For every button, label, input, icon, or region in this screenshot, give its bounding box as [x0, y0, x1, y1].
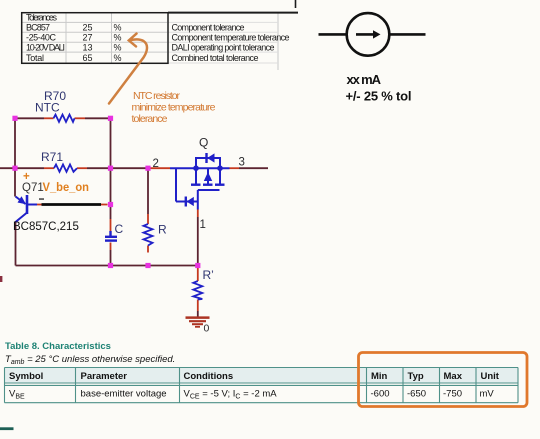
svg-text:Max: Max [444, 371, 463, 382]
drain stub [219, 168, 221, 185]
svg-text:Symbol: Symbol [9, 371, 43, 382]
gate bar [198, 189, 220, 191]
wire: right vertical (R70 loop) [110, 118, 112, 168]
mosfet junction dots [193, 165, 199, 171]
svg-text:xx mA: xx mA [347, 72, 382, 87]
gate protection branch vertical [175, 168, 177, 201]
svg-text:Conditions: Conditions [184, 371, 234, 382]
collector [16, 213, 27, 222]
current source I1 [319, 13, 426, 56]
svg-text:-600: -600 [371, 389, 390, 400]
svg-text:mV: mV [480, 389, 495, 400]
tolerance table black border [22, 13, 298, 64]
svg-text:BC857: BC857 [26, 23, 50, 33]
svg-text:+/- 25 % tol: +/- 25 % tol [346, 89, 412, 104]
channel segment right [215, 183, 225, 185]
wire lead left [319, 33, 347, 36]
svg-text:-750: -750 [443, 389, 462, 400]
svg-text:Min: Min [371, 371, 388, 382]
svg-text:DALI operating point tolerance: DALI operating point tolerance [172, 42, 275, 52]
resistor R70 zigzag [54, 115, 75, 122]
footer bar fragment [0, 427, 14, 430]
wire: bottom rail [16, 265, 199, 267]
svg-text:tolerance: tolerance [132, 113, 168, 125]
svg-text:NTC: NTC [35, 101, 60, 115]
svg-text:Table 8. Characteristics: Table 8. Characteristics [5, 341, 111, 352]
svg-text:13: 13 [82, 42, 92, 52]
wire: C column upper [110, 168, 112, 219]
svg-text:Total: Total [26, 53, 44, 63]
Table 8 header background [5, 368, 519, 384]
channel segment left [191, 183, 201, 185]
wire: R70 loop top [0, 118, 268, 317]
resistor R71 zigzag [54, 165, 77, 172]
tolerance table text [26, 13, 290, 63]
svg-text:0: 0 [204, 323, 210, 335]
svg-text:3: 3 [239, 157, 245, 169]
svg-text:Tolerances: Tolerances [26, 13, 58, 23]
svg-text:25: 25 [82, 23, 92, 33]
orange highlight box [359, 353, 528, 407]
zener wire [176, 201, 198, 203]
Table 8 body row [9, 389, 494, 401]
wire: C column lower [110, 250, 112, 266]
pin1 vertical (blue part) [197, 202, 199, 210]
MOSFET Q [170, 153, 230, 210]
svg-text:BC857C,215: BC857C,215 [13, 221, 79, 233]
svg-text:Tamb = 25 °C unless otherwise: Tamb = 25 °C unless otherwise specified. [5, 354, 175, 366]
svg-text:Component temperature toleranc: Component temperature tolerance [172, 32, 290, 42]
emitter arrowhead [18, 196, 27, 204]
node junctions (magenta) [12, 116, 200, 268]
left edge fragment [0, 276, 2, 282]
wire lead right [389, 33, 425, 36]
base bar [26, 195, 29, 214]
wire: R' column upper [197, 217, 199, 266]
wire: left vertical (R70 loop) [14, 118, 16, 168]
wire: R column upper [147, 170, 149, 214]
body arrow head [204, 172, 212, 181]
gate bar drop [197, 190, 199, 202]
body arrow line [207, 168, 209, 185]
wire: ground stem [197, 311, 199, 317]
svg-text:10-20V DALI: 10-20V DALI [26, 42, 65, 52]
component labels [35, 89, 214, 282]
svg-text:Unit: Unit [481, 371, 500, 382]
emitter [16, 197, 26, 205]
svg-text:%: % [114, 42, 122, 52]
zener diode cathode bar [185, 197, 187, 207]
thick black probe line [42, 203, 102, 206]
svg-text:-650: -650 [407, 389, 426, 400]
wire: collector drop [15, 222, 17, 266]
transistor Q71 (PNP BC857) [16, 195, 38, 222]
minus sign [39, 198, 44, 200]
svg-text:minimize temperature: minimize temperature [132, 102, 216, 114]
svg-text:R: R [158, 223, 167, 237]
svg-text:base-emitter voltage: base-emitter voltage [81, 389, 167, 400]
svg-text:C: C [115, 222, 124, 236]
zener diode triangle [187, 197, 194, 206]
body diode cathode bar [205, 153, 207, 163]
body diode branch [196, 158, 220, 168]
capacitor C [105, 231, 117, 241]
svg-text:Component tolerance: Component tolerance [172, 23, 245, 33]
current source value label [346, 72, 412, 104]
svg-text:Q: Q [199, 136, 208, 150]
annotation text [132, 90, 216, 125]
red pin stubs [37, 118, 239, 311]
wire: node2 to mosfet [170, 167, 230, 169]
arrow inside source [356, 33, 375, 36]
svg-text:65: 65 [82, 53, 92, 63]
resistor R zigzag [144, 224, 153, 246]
channel segment mid [203, 183, 213, 185]
svg-text:NTC resistor: NTC resistor [133, 90, 181, 102]
body diode triangle [207, 153, 214, 162]
source stub [195, 168, 197, 185]
svg-text:Q71: Q71 [22, 182, 44, 194]
svg-text:%: % [114, 53, 122, 63]
Table 8 borders [5, 368, 519, 403]
svg-text:27: 27 [82, 32, 92, 42]
svg-text:%: % [114, 23, 122, 33]
svg-text:Combined total tolerance: Combined total tolerance [172, 53, 259, 63]
svg-text:2: 2 [153, 158, 159, 170]
resistor R' zigzag [193, 281, 202, 300]
base lead [28, 204, 37, 206]
svg-text:R71: R71 [41, 150, 63, 164]
tolerance spreadsheet gridlines [22, 13, 278, 70]
svg-text:%: % [114, 32, 122, 42]
svg-text:Parameter: Parameter [81, 371, 128, 382]
wire: emitter drop [14, 168, 16, 196]
Table 8 header text [9, 371, 500, 382]
svg-text:1: 1 [200, 219, 206, 231]
svg-text:V_be_on: V_be_on [43, 180, 90, 194]
svg-text:-25-40C: -25-40C [26, 32, 57, 42]
screenshot edge tick [295, 0, 297, 8]
annotation arrow [109, 34, 147, 104]
svg-text:R’: R’ [203, 268, 214, 282]
svg-text:Typ: Typ [408, 371, 424, 382]
ground [186, 318, 210, 327]
wire: main row y=168 [0, 167, 44, 169]
wire: right of node 3 [239, 167, 268, 169]
